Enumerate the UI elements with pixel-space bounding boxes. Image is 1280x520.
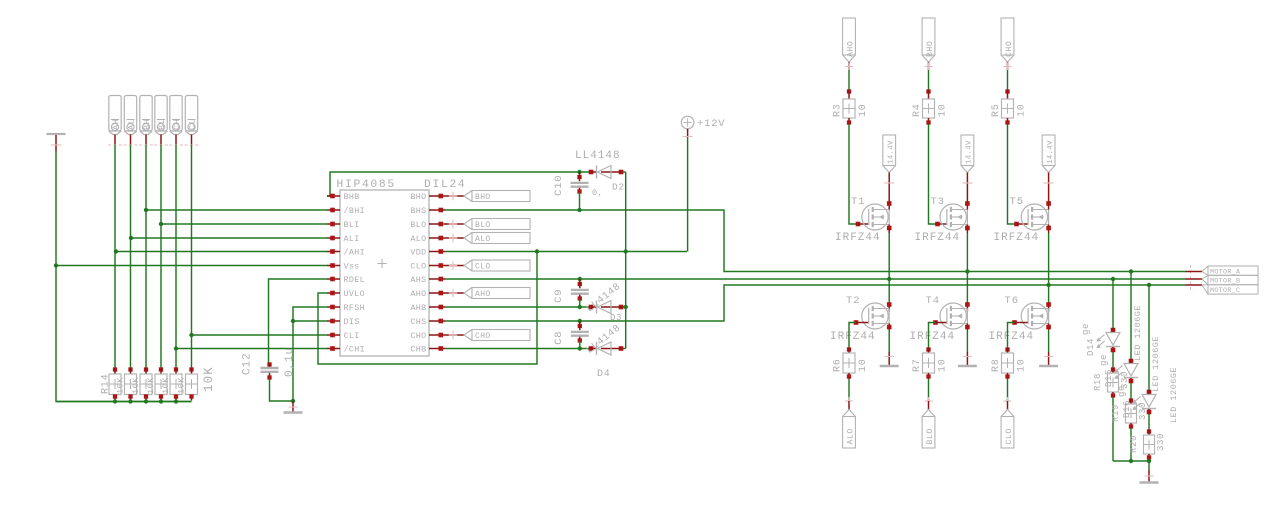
- node junction BH: [144, 208, 148, 212]
- pin of connector AH: [108, 135, 122, 146]
- svg-text:D16: D16: [1122, 400, 1132, 418]
- svg-text:330: 330: [1156, 433, 1166, 451]
- wire flag to R4: [928, 70, 930, 90]
- wire BHS to phase-B bus: [445, 210, 1186, 272]
- pin of connector BH: [139, 135, 153, 146]
- pin CLI of U1: [327, 331, 360, 341]
- svg-text:/BHI: /BHI: [344, 206, 366, 216]
- node junction LED tap D15: [1129, 269, 1133, 273]
- resistor R8 10: [1002, 347, 1014, 379]
- wire R19 to LED ground rail: [1130, 428, 1132, 461]
- transistor T1 IRFZ44: [856, 222, 869, 227]
- pin BLO of U1: [410, 220, 445, 230]
- wire R8 to flag CLO: [1007, 379, 1009, 401]
- wire source T4 to ground: [966, 330, 968, 352]
- capacitor C9: [571, 277, 589, 309]
- wire flag to R3: [848, 70, 850, 90]
- wire bus to LED D16: [1148, 285, 1150, 390]
- net flag AHO: [445, 288, 530, 300]
- resistor R18 330: [1108, 367, 1119, 397]
- wire source T2 to ground: [888, 330, 890, 352]
- resistor R14 10K: [101, 367, 122, 400]
- resistor R4 10: [923, 89, 935, 124]
- svg-text:D15: D15: [1104, 369, 1114, 387]
- node phase junction 0: [887, 277, 891, 281]
- node junction LED tap D16: [1147, 283, 1151, 287]
- net flag MOTOR_C: [1186, 285, 1259, 295]
- resistor R6 10: [843, 347, 855, 379]
- svg-text:R8: R8: [991, 358, 1002, 372]
- svg-text:ALI: ALI: [344, 234, 360, 244]
- pin source of T4: [965, 324, 970, 331]
- wire UVLO left, down and under IC: [318, 252, 537, 365]
- wire R3 to gate of T1: [849, 124, 858, 224]
- transistor T6 IRFZ44: [1046, 302, 1051, 311]
- wire column BH down to resistor array: [145, 145, 147, 369]
- svg-text:ge: ge: [1081, 323, 1091, 335]
- svg-text:+12V: +12V: [697, 118, 725, 130]
- net flag CLO: [445, 260, 530, 272]
- pin ALI of U1: [327, 234, 360, 244]
- svg-text:BHO: BHO: [926, 41, 935, 57]
- svg-text:BHS: BHS: [410, 206, 426, 216]
- LED D14 LED 1206GE: [1097, 328, 1121, 353]
- pin CLO of U1: [410, 262, 445, 272]
- node junction LED rail: [1129, 459, 1133, 463]
- svg-text:10: 10: [858, 103, 869, 117]
- svg-text:IRFZ44: IRFZ44: [994, 232, 1040, 244]
- svg-text:T2: T2: [846, 295, 860, 307]
- resistor R19 330: [1126, 398, 1137, 428]
- pin of connector CL: [185, 135, 199, 146]
- svg-text:DIS: DIS: [344, 317, 360, 327]
- wire LED to R18: [1112, 352, 1114, 368]
- svg-text:/AHI: /AHI: [344, 248, 366, 258]
- node junction LED rail right: [1147, 459, 1151, 463]
- wire column CL down to resistor array: [191, 145, 193, 369]
- ground under T6: [1039, 352, 1058, 366]
- svg-text:C8: C8: [553, 331, 565, 345]
- pin ticks of motor flags: [1190, 265, 1192, 291]
- svg-text:MOTOR_C: MOTOR_C: [1210, 287, 1240, 295]
- pin drain of T3: [965, 199, 970, 210]
- wire DIS to RFSH vertical: [293, 320, 327, 322]
- svg-text:10: 10: [1017, 103, 1028, 117]
- wire R18 to LED ground rail: [1112, 397, 1114, 461]
- supply flag 14.4V phase 2: [1042, 135, 1055, 199]
- node rail junction: [113, 399, 117, 403]
- pin /AHI of U1: [327, 248, 365, 258]
- svg-text:14.4V: 14.4V: [966, 140, 974, 164]
- svg-text:LED 1206GE: LED 1206GE: [1133, 305, 1143, 361]
- svg-text:D3: D3: [610, 313, 622, 323]
- svg-text:DIL24: DIL24: [424, 179, 466, 191]
- supply flag 14.4V phase 0: [883, 135, 896, 199]
- diode D4 LL4148: [589, 342, 624, 355]
- svg-text:BLO: BLO: [475, 221, 491, 230]
- svg-text:UVLO: UVLO: [344, 289, 366, 299]
- svg-text:T3: T3: [931, 196, 945, 208]
- pin drain of T5: [1046, 199, 1051, 210]
- wire R5 to gate of T5: [1008, 124, 1017, 224]
- wire resistor array bottom rail: [56, 401, 192, 403]
- node junction VDD-D2 vertical: [624, 249, 628, 253]
- wire D3 to VDD vertical: [621, 306, 626, 308]
- svg-text:HIP4085: HIP4085: [337, 179, 396, 191]
- svg-text:AHO: AHO: [846, 41, 855, 57]
- pin DIS of U1: [327, 317, 360, 327]
- node rail junction: [128, 399, 132, 403]
- wire left vertical from GND1 down to resistor rail: [56, 152, 192, 402]
- svg-text:AHS: AHS: [410, 275, 426, 285]
- svg-text:ALO: ALO: [846, 428, 855, 444]
- pin of connector CH: [169, 135, 183, 146]
- transistor T2 IRFZ44: [887, 302, 892, 311]
- wire Vss to left vertical: [56, 265, 327, 267]
- svg-text:AHB: AHB: [410, 303, 426, 313]
- resistor R3 10: [843, 89, 855, 124]
- resistor R18 10K: [161, 367, 182, 400]
- connector pad CL: [185, 96, 197, 135]
- wire source T5 to drain T6: [1048, 233, 1050, 304]
- wire flag to R5: [1007, 70, 1009, 90]
- net flag BLO: [445, 219, 530, 231]
- net flag CHO gate drive top: [1001, 18, 1014, 62]
- supply flag 14.4V phase 1: [961, 135, 974, 199]
- svg-text:VDD: VDD: [410, 248, 426, 258]
- wire CLI from column CL: [192, 334, 328, 336]
- svg-text:IRFZ44: IRFZ44: [915, 232, 961, 244]
- svg-text:BLI: BLI: [344, 220, 360, 230]
- svg-text:R19: R19: [1111, 404, 1121, 422]
- pin BLI of U1: [327, 220, 360, 230]
- pin BHO of U1: [410, 192, 445, 202]
- svg-text:10K: 10K: [202, 366, 216, 392]
- svg-text:D14: D14: [1086, 338, 1096, 356]
- wire gate T6 to R8: [1008, 323, 1015, 349]
- svg-text:10: 10: [938, 358, 949, 372]
- connector pad BL: [155, 96, 167, 135]
- wire +12V to VDD: [687, 138, 689, 252]
- svg-text:CHO: CHO: [410, 331, 426, 341]
- svg-text:D2: D2: [612, 182, 625, 193]
- wire LED ground rail: [1113, 460, 1149, 462]
- svg-text:R14: R14: [101, 374, 112, 394]
- ground GND1 top-left: [47, 133, 66, 135]
- wire bus to LED D14: [1112, 279, 1114, 328]
- svg-text:BHO: BHO: [475, 193, 491, 202]
- svg-text:BH: BH: [142, 118, 152, 130]
- pin gate of T4: [933, 320, 946, 325]
- svg-text:AHO: AHO: [410, 289, 426, 299]
- LED D16 LED 1206GE: [1133, 390, 1157, 415]
- LED D15 LED 1206GE: [1115, 359, 1139, 384]
- svg-text:CLO: CLO: [410, 262, 426, 272]
- svg-text:LL4148: LL4148: [575, 150, 621, 162]
- pin drain of T1: [887, 199, 892, 210]
- wire source T6 to ground: [1048, 330, 1050, 352]
- svg-text:BHO: BHO: [410, 192, 426, 202]
- pin CHB of U1: [410, 345, 445, 355]
- supply +12V symbol: [681, 116, 725, 137]
- wire rail to ground: [1148, 461, 1150, 470]
- svg-text:CH: CH: [172, 118, 182, 130]
- pin of flag BHO: [925, 62, 933, 71]
- wire source T3 to drain T4: [966, 233, 968, 304]
- wire /AHI from column AH: [116, 251, 327, 253]
- wire gate T4 to R7: [929, 323, 936, 349]
- svg-text:10: 10: [938, 103, 949, 117]
- node junction AH: [114, 249, 118, 253]
- pin gate of T2: [854, 320, 869, 325]
- pin gate of T6: [1012, 320, 1027, 325]
- node junction CL: [189, 333, 193, 337]
- svg-text:CHO: CHO: [475, 332, 491, 341]
- wire RFSH left and down to ground node: [293, 307, 327, 401]
- node junction UVLO-VDD: [535, 249, 539, 253]
- resistor R17 10K: [146, 367, 167, 400]
- svg-text:C9: C9: [553, 289, 565, 303]
- node junction LED tap D14: [1111, 277, 1115, 281]
- node Vss junction on left vertical: [54, 263, 58, 267]
- resistor R15 10K: [115, 367, 136, 400]
- svg-text:10K: 10K: [176, 377, 186, 394]
- wire AHB to diode D3: [445, 306, 591, 308]
- resistor R7 10: [923, 347, 935, 379]
- wire R6 to flag ALO: [848, 379, 850, 401]
- wire R4 to gate of T3: [929, 124, 938, 224]
- node junction CH: [174, 346, 178, 350]
- net flag ALO: [445, 233, 530, 245]
- wire source T1 to drain T2: [888, 233, 890, 304]
- svg-text:0,: 0,: [592, 188, 603, 198]
- ground GND3 under LEDs: [1140, 470, 1159, 483]
- svg-text:10K: 10K: [115, 377, 125, 394]
- net flag CHO: [445, 330, 530, 342]
- capacitor C12 0,1u: [261, 362, 279, 379]
- node rail junction: [144, 399, 148, 403]
- pin RFSH of U1: [327, 303, 365, 313]
- wire LED to R19: [1130, 383, 1132, 399]
- net flag BLO gate drive bottom: [925, 397, 933, 410]
- pin AHS of U1: [410, 275, 445, 285]
- pin source of T1: [887, 225, 892, 234]
- net flag ALO gate drive bottom: [845, 397, 853, 410]
- net flag AHO gate drive top: [843, 18, 856, 62]
- svg-text:0,1u: 0,1u: [284, 347, 296, 377]
- svg-text:10: 10: [1017, 358, 1028, 372]
- pin source of T2: [887, 324, 892, 331]
- svg-text:D4: D4: [597, 369, 611, 380]
- pin ALO of U1: [410, 234, 445, 244]
- pin CHO of U1: [410, 331, 445, 341]
- svg-text:R18: R18: [1093, 373, 1103, 391]
- svg-text:IRFZ44: IRFZ44: [835, 232, 881, 244]
- wire CHB to diode D4: [445, 348, 591, 350]
- pin AHB of U1: [410, 303, 445, 313]
- pin AHO of U1: [410, 289, 445, 299]
- wire /BHI from column BH: [146, 209, 327, 211]
- transistor T5 IRFZ44: [1014, 222, 1027, 227]
- wire C12 bottom to ground node: [270, 379, 294, 402]
- wire column BL down to resistor array: [160, 145, 162, 369]
- svg-text:LED 1206GE: LED 1206GE: [1169, 367, 1179, 423]
- wire D4 to VDD vertical: [621, 348, 626, 350]
- svg-text:AHO: AHO: [475, 290, 491, 299]
- svg-text:C12: C12: [242, 352, 254, 375]
- diode D3 LL4148: [589, 301, 624, 314]
- svg-text:/CHI: /CHI: [344, 345, 366, 355]
- node junction ground C12: [291, 399, 295, 403]
- pin /CHI of U1: [327, 345, 365, 355]
- svg-text:IRFZ44: IRFZ44: [830, 331, 876, 343]
- pin Vss of U1: [327, 262, 360, 272]
- svg-text:CHS: CHS: [410, 317, 426, 327]
- resistor R20 330: [1144, 429, 1155, 459]
- svg-text:BHB: BHB: [344, 192, 360, 202]
- net flag MOTOR_B: [1186, 275, 1259, 285]
- transistor T3 IRFZ44: [935, 222, 946, 227]
- pin of connector AL: [124, 135, 138, 146]
- net flag CLO gate drive bottom: [1004, 397, 1012, 410]
- node rail junction: [174, 399, 178, 403]
- wire column AL down to resistor array: [130, 145, 132, 369]
- svg-text:10K: 10K: [161, 377, 171, 394]
- connector pad BH: [140, 96, 152, 135]
- pin BHB of U1: [327, 192, 360, 202]
- svg-text:T5: T5: [1010, 196, 1024, 208]
- svg-text:CHO: CHO: [1005, 41, 1014, 57]
- wire ALI from column AL: [131, 237, 327, 239]
- pin BHS of U1: [410, 206, 445, 216]
- net flag BHO: [445, 191, 530, 203]
- svg-text:CLO: CLO: [475, 263, 491, 272]
- wire BLI from column BL: [161, 223, 327, 225]
- ground under T4: [958, 352, 977, 366]
- wire R7 to flag BLO: [928, 379, 930, 401]
- svg-text:R4: R4: [912, 103, 923, 117]
- pin of flag CHO: [1004, 62, 1012, 71]
- ground under T2: [880, 352, 899, 366]
- wire RDEL left and down to C12: [269, 279, 328, 363]
- node junction BL: [159, 222, 163, 226]
- svg-text:Vss: Vss: [344, 262, 360, 272]
- svg-text:T6: T6: [1005, 295, 1019, 307]
- wire gate T2 to R6: [849, 323, 856, 349]
- svg-text:AL: AL: [127, 118, 137, 130]
- net flag MOTOR_A: [1186, 266, 1259, 276]
- svg-text:R7: R7: [912, 358, 923, 372]
- pin source of T6: [1046, 324, 1051, 331]
- svg-text:C10: C10: [553, 175, 565, 196]
- svg-text:LED 1206GE: LED 1206GE: [1151, 336, 1161, 392]
- wire AHS phase-A bus: [445, 278, 1186, 280]
- svg-text:14.4V: 14.4V: [1047, 140, 1055, 164]
- svg-text:CLI: CLI: [344, 331, 360, 341]
- node phase junction 1: [965, 269, 969, 273]
- connector pad AL: [124, 96, 136, 135]
- svg-text:AH: AH: [111, 118, 121, 130]
- pin CHS of U1: [410, 317, 445, 327]
- connector pad CH: [170, 96, 182, 135]
- wire LED to R20: [1148, 414, 1150, 430]
- capacitor C10: [571, 170, 589, 212]
- svg-text:BLO: BLO: [410, 220, 426, 230]
- svg-text:T4: T4: [926, 295, 940, 307]
- svg-text:ge: ge: [1099, 354, 1109, 366]
- wire VDD vertical to diodes: [625, 172, 627, 349]
- svg-text:CLO: CLO: [1005, 428, 1014, 444]
- pin RDEL of U1: [327, 275, 365, 285]
- wire column CH down to resistor array: [175, 145, 177, 369]
- pin VDD of U1: [410, 248, 445, 258]
- svg-text:10: 10: [858, 358, 869, 372]
- pin source of T3: [965, 225, 970, 234]
- svg-text:RFSH: RFSH: [344, 303, 366, 313]
- svg-text:ALO: ALO: [410, 234, 426, 244]
- resistor R19 10K: [176, 367, 197, 400]
- svg-text:14.4V: 14.4V: [887, 140, 895, 164]
- svg-text:ALO: ALO: [475, 235, 491, 244]
- wire VDD line: [445, 251, 687, 253]
- svg-text:10K: 10K: [146, 377, 156, 394]
- svg-text:BLO: BLO: [926, 428, 935, 444]
- wire column AH down to resistor array: [114, 145, 116, 369]
- connector pad AH: [109, 96, 121, 135]
- wire R20 to LED ground rail: [1148, 459, 1150, 461]
- svg-text:R20: R20: [1129, 435, 1139, 453]
- svg-text:CL: CL: [188, 118, 198, 130]
- node rail junction: [159, 399, 163, 403]
- resistor R16 10K: [131, 367, 152, 400]
- node phase junction 2: [1046, 283, 1050, 287]
- svg-text:IRFZ44: IRFZ44: [989, 331, 1035, 343]
- wire /CHI from column CH: [176, 348, 327, 350]
- pin source of T5: [1046, 225, 1051, 234]
- diode D2 LL4148: [589, 166, 624, 179]
- op-amp U1 HIP4085 DIL24 body: [337, 179, 467, 356]
- svg-text:IRFZ44: IRFZ44: [910, 331, 956, 343]
- svg-text:10K: 10K: [131, 377, 141, 394]
- wire BHB up and over IC to bootstrap diode D2: [327, 172, 591, 196]
- pin UVLO of U1: [327, 289, 365, 299]
- svg-text:RDEL: RDEL: [344, 275, 366, 285]
- transistor T4 IRFZ44: [965, 302, 970, 311]
- pin /BHI of U1: [327, 206, 365, 216]
- capacitor C8: [571, 319, 589, 351]
- wire bus to LED D15: [1130, 272, 1132, 360]
- pin of flag AHO: [845, 62, 853, 71]
- node junction AL: [129, 236, 133, 240]
- svg-text:R5: R5: [991, 103, 1002, 117]
- wire D2 cathode to VDD vertical: [621, 171, 626, 173]
- svg-text:ge: ge: [1117, 385, 1127, 397]
- svg-text:CHB: CHB: [410, 345, 426, 355]
- ground GND2 under C12: [284, 401, 303, 413]
- svg-text:T1: T1: [851, 196, 865, 208]
- pin of connector BL: [154, 135, 168, 146]
- svg-text:R6: R6: [833, 358, 844, 372]
- node junction DIS: [291, 319, 295, 323]
- resistor R5 10: [1002, 89, 1014, 124]
- svg-text:BL: BL: [157, 118, 167, 130]
- node junction AHB-VDD vertical: [624, 305, 628, 309]
- svg-text:330: 330: [1138, 402, 1148, 420]
- svg-text:R3: R3: [833, 103, 844, 117]
- net flag BHO gate drive top: [922, 18, 935, 62]
- wire CHS to phase-C bus: [445, 285, 1186, 321]
